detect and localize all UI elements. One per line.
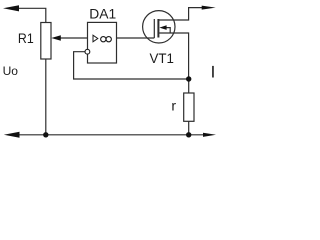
- svg-text:r: r: [171, 98, 176, 114]
- svg-text:Uo: Uo: [3, 64, 19, 78]
- svg-text:R1: R1: [18, 30, 34, 46]
- svg-text:DA1: DA1: [89, 6, 116, 22]
- svg-text:VT1: VT1: [150, 50, 175, 66]
